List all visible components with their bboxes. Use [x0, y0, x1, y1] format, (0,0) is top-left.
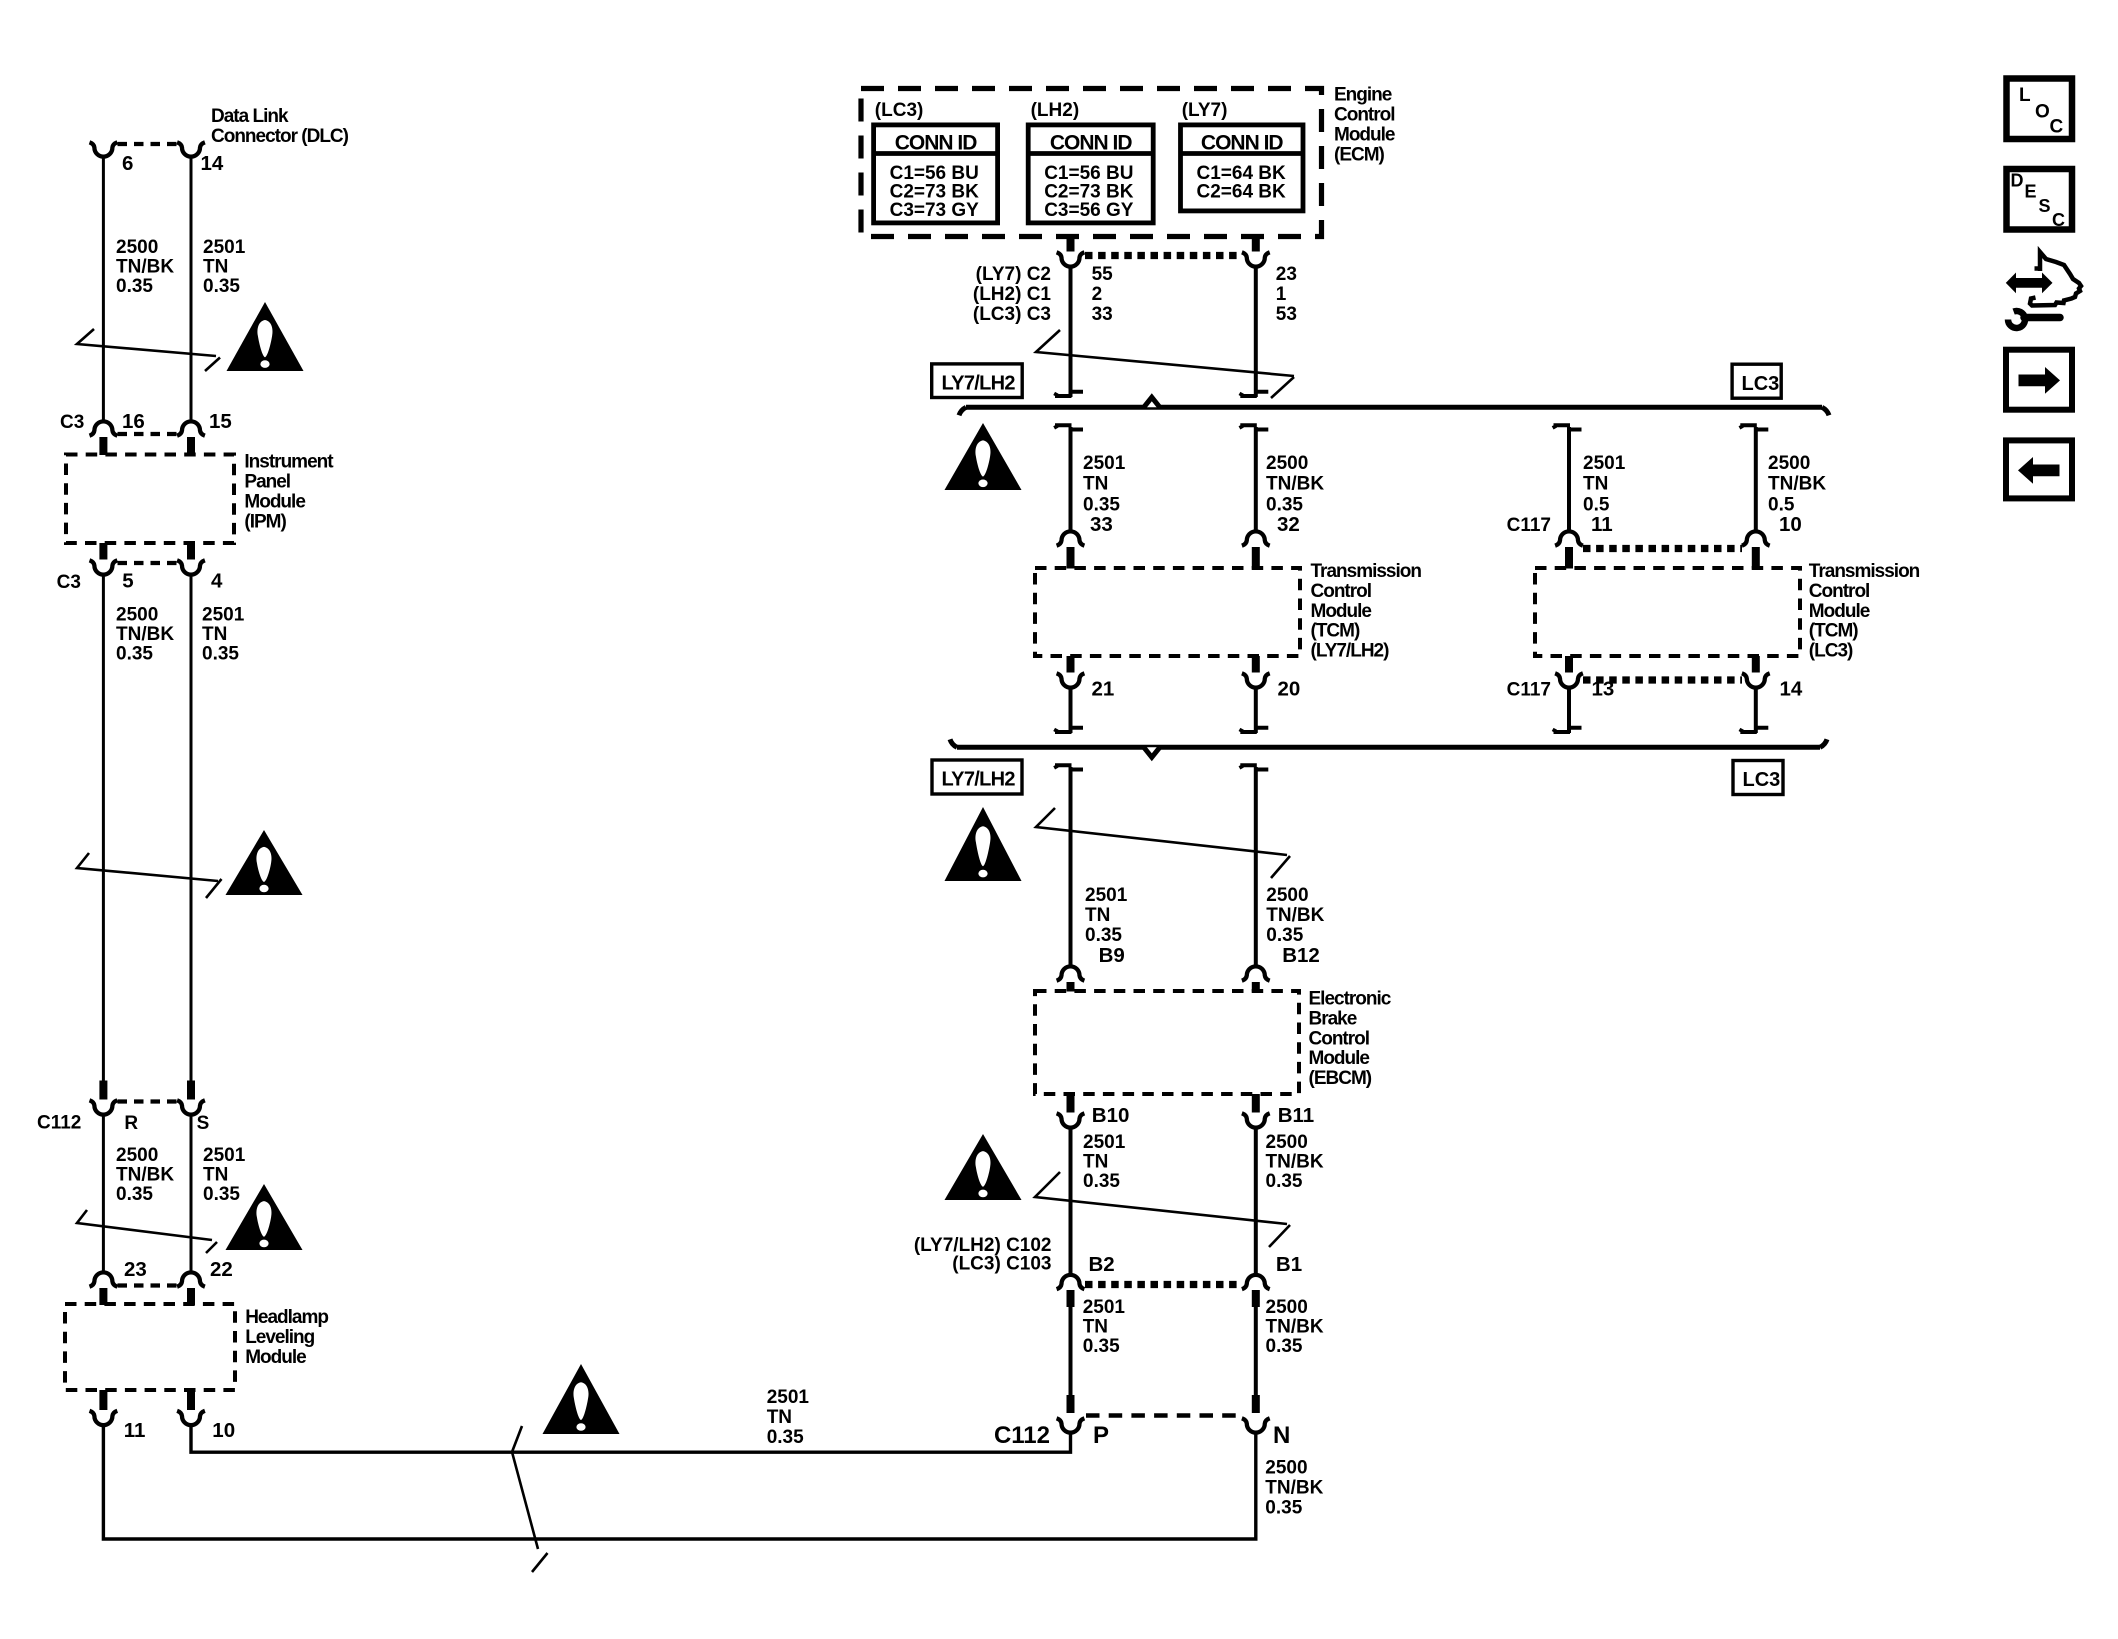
svg-text:4: 4: [211, 570, 223, 593]
svg-text:(LC3) C3: (LC3) C3: [973, 304, 1051, 325]
svg-text:C3: C3: [57, 572, 81, 593]
svg-text:Electronic: Electronic: [1309, 989, 1392, 1010]
svg-text:2500: 2500: [1266, 453, 1308, 474]
svg-text:2501: 2501: [1083, 1297, 1126, 1318]
svg-text:(LH2): (LH2): [1031, 100, 1080, 121]
svg-text:15: 15: [209, 410, 232, 433]
svg-text:32: 32: [1277, 513, 1300, 536]
svg-text:TN: TN: [767, 1407, 792, 1428]
svg-text:2: 2: [1092, 284, 1103, 305]
svg-text:14: 14: [1780, 678, 1803, 701]
svg-text:C: C: [2052, 210, 2065, 230]
svg-text:2501: 2501: [1083, 453, 1126, 474]
svg-text:2501: 2501: [1085, 885, 1128, 906]
svg-text:S: S: [197, 1113, 210, 1134]
svg-text:Connector (DLC): Connector (DLC): [211, 126, 349, 147]
svg-text:Module: Module: [1309, 1048, 1370, 1069]
svg-text:2500: 2500: [1768, 453, 1810, 474]
svg-text:TN: TN: [1085, 905, 1110, 926]
svg-text:Module: Module: [1809, 601, 1870, 622]
svg-text:L: L: [2019, 85, 2031, 106]
svg-text:20: 20: [1278, 678, 1301, 701]
svg-text:Control: Control: [1309, 1028, 1370, 1049]
svg-text:0.35: 0.35: [116, 644, 153, 665]
svg-text:TN/BK: TN/BK: [1266, 1152, 1324, 1173]
svg-text:2500: 2500: [1265, 1458, 1307, 1479]
svg-text:(ECM): (ECM): [1334, 144, 1385, 165]
svg-text:16: 16: [122, 410, 145, 433]
svg-text:0.35: 0.35: [116, 1184, 153, 1205]
svg-text:TN: TN: [1083, 1317, 1108, 1338]
svg-text:B2: B2: [1089, 1253, 1115, 1276]
svg-text:C3=56 GY: C3=56 GY: [1044, 200, 1134, 221]
svg-text:CONN ID: CONN ID: [1201, 132, 1284, 155]
svg-text:0.35: 0.35: [767, 1427, 804, 1448]
svg-text:2501: 2501: [203, 1145, 246, 1166]
svg-text:C112: C112: [994, 1422, 1050, 1449]
svg-text:(IPM): (IPM): [244, 511, 286, 532]
svg-text:TN/BK: TN/BK: [116, 257, 174, 278]
svg-text:Module: Module: [244, 491, 305, 512]
svg-text:2501: 2501: [1583, 453, 1626, 474]
svg-text:N: N: [1273, 1422, 1290, 1449]
svg-text:LC3: LC3: [1743, 769, 1781, 791]
svg-text:TN: TN: [202, 624, 227, 645]
svg-text:R: R: [124, 1113, 138, 1134]
svg-text:(LH2) C1: (LH2) C1: [973, 284, 1052, 305]
svg-text:2500: 2500: [1266, 1132, 1308, 1153]
svg-text:0.35: 0.35: [1085, 925, 1122, 946]
svg-text:14: 14: [201, 152, 224, 175]
svg-text:TN: TN: [1083, 474, 1108, 495]
svg-text:CONN ID: CONN ID: [1050, 132, 1133, 155]
svg-text:Control: Control: [1311, 581, 1372, 602]
svg-text:LY7/LH2: LY7/LH2: [942, 769, 1016, 791]
svg-text:TN: TN: [203, 257, 228, 278]
svg-text:D: D: [2011, 171, 2024, 191]
svg-text:(EBCM): (EBCM): [1309, 1068, 1372, 1089]
svg-text:2501: 2501: [767, 1387, 810, 1408]
svg-text:B1: B1: [1276, 1253, 1302, 1276]
svg-text:Headlamp: Headlamp: [245, 1307, 328, 1328]
svg-text:LC3: LC3: [1742, 373, 1780, 395]
svg-text:TN: TN: [1583, 474, 1608, 495]
svg-text:Instrument: Instrument: [244, 452, 334, 473]
svg-text:C3: C3: [60, 412, 84, 433]
svg-text:10: 10: [1779, 513, 1802, 536]
svg-text:C117: C117: [1507, 515, 1551, 536]
svg-text:B9: B9: [1099, 944, 1125, 967]
svg-text:TN/BK: TN/BK: [1266, 905, 1324, 926]
svg-text:CONN ID: CONN ID: [895, 132, 978, 155]
svg-text:33: 33: [1092, 304, 1113, 325]
svg-text:(TCM): (TCM): [1311, 621, 1360, 642]
svg-text:0.35: 0.35: [203, 1184, 240, 1205]
svg-text:0.35: 0.35: [116, 276, 153, 297]
svg-text:2501: 2501: [203, 237, 246, 258]
svg-text:33: 33: [1090, 513, 1113, 536]
svg-text:E: E: [2025, 182, 2037, 202]
svg-text:Brake: Brake: [1309, 1008, 1357, 1029]
svg-text:23: 23: [124, 1258, 147, 1281]
svg-text:6: 6: [122, 152, 133, 175]
svg-text:0.35: 0.35: [203, 276, 240, 297]
svg-text:2501: 2501: [202, 605, 245, 626]
svg-text:TN/BK: TN/BK: [1266, 474, 1324, 495]
svg-text:10: 10: [212, 1419, 235, 1442]
svg-text:(LC3) C103: (LC3) C103: [952, 1254, 1051, 1275]
svg-text:TN/BK: TN/BK: [1768, 474, 1826, 495]
svg-text:TN/BK: TN/BK: [1266, 1317, 1324, 1338]
svg-text:TN/BK: TN/BK: [1265, 1478, 1323, 1499]
svg-text:TN: TN: [203, 1165, 228, 1186]
svg-text:Data Link: Data Link: [211, 106, 289, 127]
svg-text:23: 23: [1276, 264, 1297, 285]
svg-text:C3=73 GY: C3=73 GY: [890, 200, 980, 221]
svg-text:(LY7): (LY7): [1182, 100, 1228, 121]
svg-text:C2=64 BK: C2=64 BK: [1197, 182, 1287, 203]
svg-text:5: 5: [122, 570, 133, 593]
svg-text:Engine: Engine: [1334, 84, 1392, 105]
svg-text:TN/BK: TN/BK: [116, 624, 174, 645]
svg-text:21: 21: [1092, 678, 1115, 701]
svg-text:2500: 2500: [116, 237, 158, 258]
svg-text:C112: C112: [37, 1113, 81, 1134]
svg-text:22: 22: [210, 1258, 233, 1281]
svg-text:Transmission: Transmission: [1311, 561, 1422, 582]
svg-text:0.35: 0.35: [1266, 925, 1303, 946]
svg-text:13: 13: [1592, 678, 1615, 701]
svg-text:Panel: Panel: [244, 472, 290, 493]
svg-text:Module: Module: [245, 1347, 306, 1368]
svg-text:0.35: 0.35: [1083, 1336, 1120, 1357]
svg-text:Module: Module: [1334, 124, 1395, 145]
svg-text:C117: C117: [1507, 680, 1551, 701]
svg-text:P: P: [1093, 1422, 1109, 1449]
svg-text:O: O: [2035, 102, 2050, 123]
svg-text:(LC3): (LC3): [875, 100, 924, 121]
svg-text:(LC3): (LC3): [1809, 641, 1853, 662]
svg-text:55: 55: [1092, 264, 1114, 285]
svg-text:Leveling: Leveling: [245, 1327, 314, 1348]
svg-text:0.35: 0.35: [1265, 1498, 1302, 1519]
svg-text:Transmission: Transmission: [1809, 561, 1920, 582]
svg-text:11: 11: [1591, 513, 1613, 536]
svg-text:2501: 2501: [1083, 1132, 1126, 1153]
svg-text:(LY7/LH2): (LY7/LH2): [1311, 641, 1390, 662]
svg-text:TN: TN: [1083, 1152, 1108, 1173]
svg-text:2500: 2500: [116, 605, 158, 626]
svg-text:0.35: 0.35: [1083, 1171, 1120, 1192]
svg-text:Control: Control: [1809, 581, 1870, 602]
svg-text:(LY7) C2: (LY7) C2: [976, 264, 1051, 285]
svg-text:0.35: 0.35: [1266, 1171, 1303, 1192]
svg-text:0.35: 0.35: [1266, 1336, 1303, 1357]
svg-text:Module: Module: [1311, 601, 1372, 622]
svg-text:S: S: [2039, 196, 2051, 216]
svg-text:TN/BK: TN/BK: [116, 1165, 174, 1186]
svg-text:LY7/LH2: LY7/LH2: [942, 373, 1016, 395]
svg-text:B11: B11: [1278, 1104, 1314, 1127]
svg-text:2500: 2500: [116, 1145, 158, 1166]
svg-text:(TCM): (TCM): [1809, 621, 1858, 642]
svg-text:2500: 2500: [1266, 885, 1308, 906]
svg-text:11: 11: [124, 1419, 146, 1442]
svg-text:0.35: 0.35: [202, 644, 239, 665]
svg-text:B12: B12: [1282, 944, 1320, 967]
svg-text:53: 53: [1276, 304, 1297, 325]
svg-text:B10: B10: [1092, 1104, 1130, 1127]
svg-text:1: 1: [1276, 284, 1287, 305]
svg-text:Control: Control: [1334, 104, 1395, 125]
svg-text:2500: 2500: [1266, 1297, 1308, 1318]
svg-text:C: C: [2050, 117, 2064, 138]
